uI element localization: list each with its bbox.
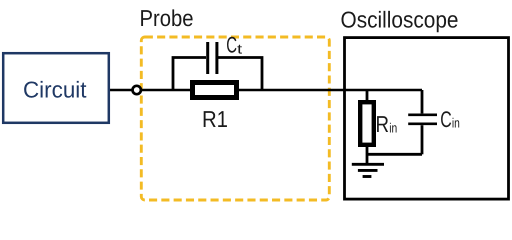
svg-text:C: C <box>440 107 452 132</box>
svg-text:in: in <box>389 120 397 135</box>
svg-text:Oscilloscope: Oscilloscope <box>341 7 459 33</box>
svg-text:R: R <box>376 111 390 137</box>
svg-text:in: in <box>452 116 460 131</box>
svg-text:C: C <box>226 32 237 57</box>
svg-text:Probe: Probe <box>140 5 194 31</box>
svg-text:R1: R1 <box>202 106 228 132</box>
svg-text:t: t <box>237 42 242 57</box>
svg-text:Circuit: Circuit <box>23 77 87 103</box>
